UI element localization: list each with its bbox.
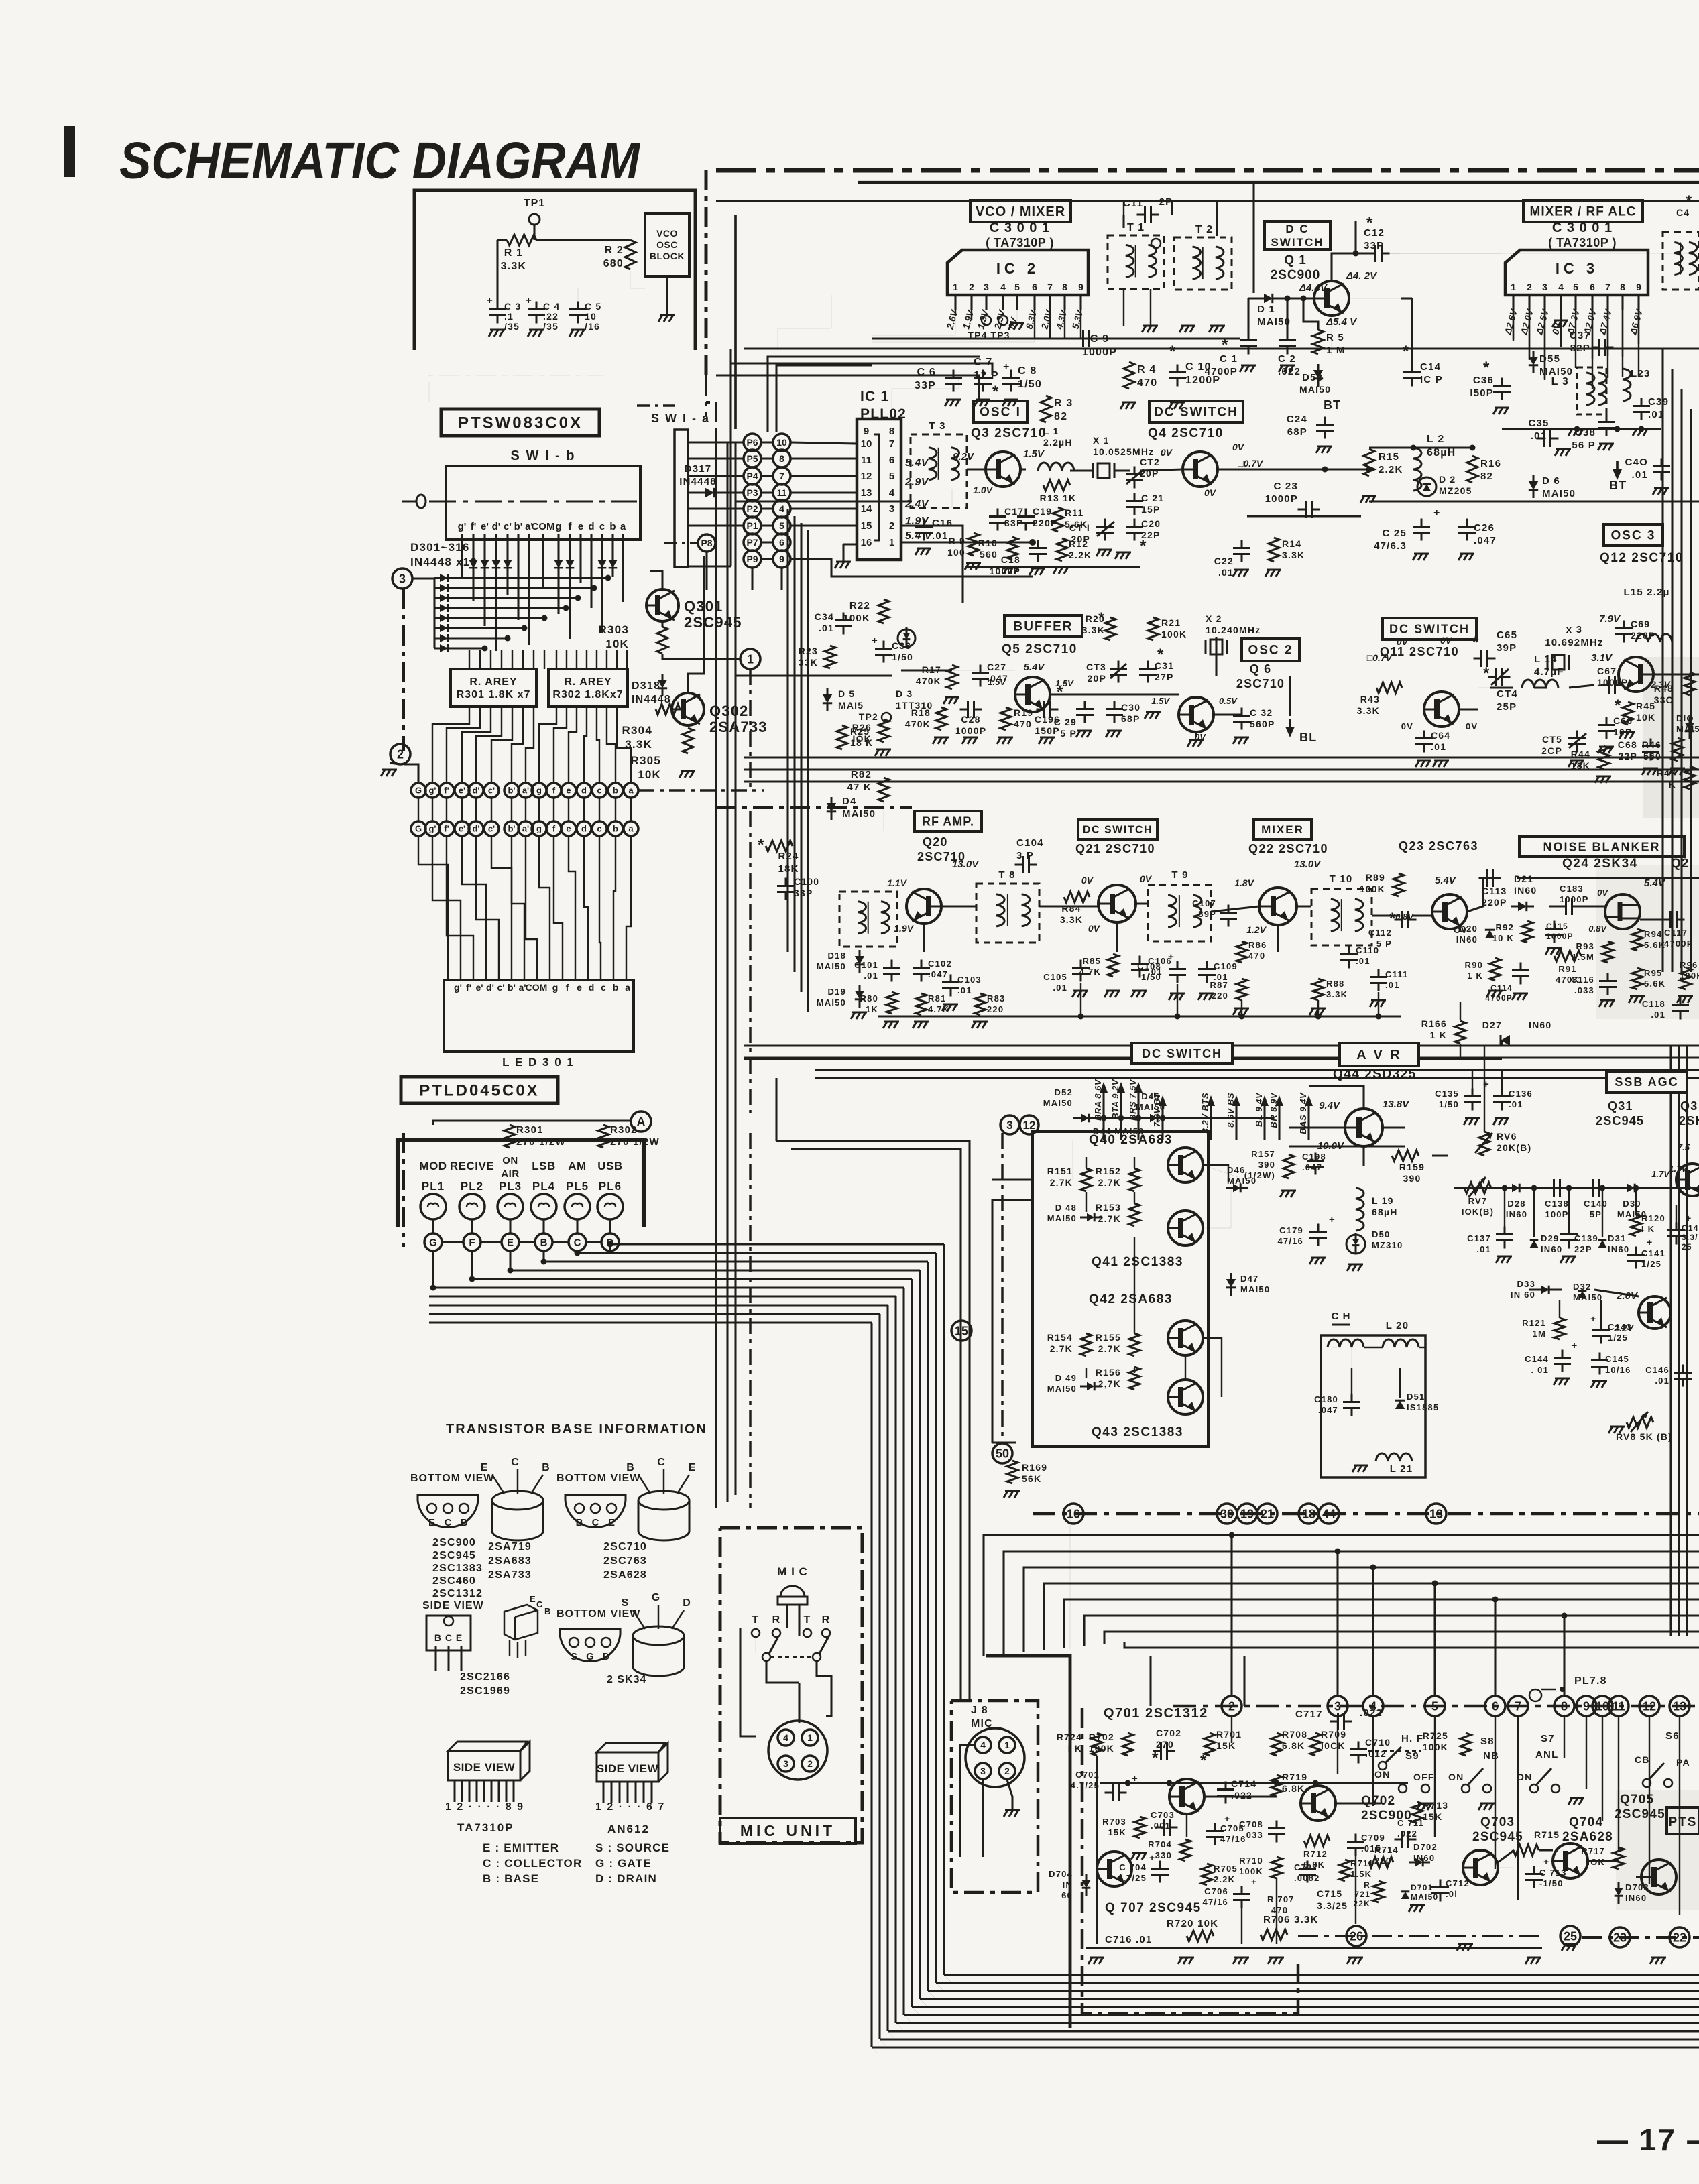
wire nb to avr vertical (1460, 1002, 1461, 1020)
svg-text:C 711: C 711 (1397, 1818, 1424, 1828)
svg-text:D55: D55 (1539, 353, 1560, 365)
svg-text:IN 60: IN 60 (1511, 1290, 1535, 1300)
resistor R711 (1340, 1860, 1350, 1881)
svg-text:C: C (536, 1599, 544, 1610)
resistor R708 (1271, 1733, 1282, 1756)
svg-text:C 23: C 23 (1274, 481, 1299, 492)
svg-text:220P: 220P (1482, 897, 1507, 908)
ground S7 (1568, 1798, 1584, 1805)
svg-text:2SC900: 2SC900 (1271, 268, 1321, 282)
svg-text:C715: C715 (1317, 1888, 1342, 1899)
resistor R89 (1393, 873, 1404, 896)
resistor R710 (1271, 1857, 1282, 1878)
OSC3 label box (1604, 524, 1663, 546)
svg-text:1 M: 1 M (1326, 345, 1346, 356)
resistor R715 (1513, 1845, 1539, 1856)
NOISE BLANKER label box (1519, 837, 1684, 857)
capacitor C711 (1395, 1831, 1417, 1848)
svg-text:2.7K: 2.7K (1098, 1343, 1121, 1354)
svg-text:Q701 2SC1312: Q701 2SC1312 (1104, 1706, 1208, 1721)
svg-text:R154: R154 (1047, 1332, 1073, 1343)
svg-text:R 5: R 5 (1326, 332, 1344, 343)
svg-text:S W I - b: S W I - b (511, 448, 576, 463)
resistor R121 (1554, 1318, 1565, 1339)
capacitor C703 (1156, 1819, 1178, 1836)
svg-text:47 K: 47 K (847, 782, 872, 793)
transistor Q702 (1301, 1786, 1336, 1821)
resistor R83 (975, 993, 986, 1015)
svg-text:1/25: 1/25 (1608, 1333, 1628, 1343)
SW1-b shaft symbol (416, 495, 426, 508)
wire P8 down (705, 552, 707, 590)
wire top band ic2 pin rails (1034, 310, 1035, 339)
svg-text:BRA 8.6V: BRA 8.6V (1093, 1079, 1103, 1121)
svg-text:+: + (1433, 507, 1441, 519)
svg-text:.01: .01 (1385, 980, 1400, 990)
svg-text:0V: 0V (1397, 636, 1409, 647)
capacitor C24 (1316, 417, 1334, 439)
package small cube (504, 1605, 538, 1640)
switch SW1-a bar (675, 430, 688, 567)
svg-text:MAI50: MAI50 (1257, 316, 1291, 328)
transistor Q301 (646, 589, 679, 621)
svg-text:*: * (1615, 696, 1622, 715)
svg-text:PL5: PL5 (566, 1180, 589, 1193)
resistor R44 (1598, 746, 1609, 769)
svg-text:2: 2 (889, 520, 894, 532)
svg-text:7.9V: 7.9V (1599, 613, 1621, 625)
capacitor C3 (489, 302, 506, 324)
svg-text:9: 9 (864, 426, 869, 437)
svg-text:220: 220 (1212, 991, 1228, 1001)
grounds under R4 C10 (1120, 402, 1136, 409)
svg-text:82P: 82P (1570, 343, 1590, 354)
svg-text:A: A (637, 1115, 646, 1128)
svg-text:MIXER / RF ALC: MIXER / RF ALC (1530, 205, 1637, 219)
svg-text:C116: C116 (1571, 975, 1594, 985)
svg-text:R156: R156 (1096, 1367, 1121, 1378)
diode D701 (1401, 1892, 1410, 1899)
resistor R157 (1283, 1154, 1294, 1178)
grounds ssb agc (1496, 1256, 1512, 1263)
svg-text:Q40 2SA683: Q40 2SA683 (1089, 1133, 1173, 1147)
svg-text:8: 8 (1062, 282, 1067, 292)
diode D55 (1529, 357, 1538, 365)
svg-text:OSC 3: OSC 3 (1610, 529, 1655, 543)
R.AREY box 2 (548, 669, 628, 707)
svg-text:7: 7 (889, 438, 894, 450)
svg-text:b': b' (514, 521, 523, 532)
svg-text:5: 5 (889, 471, 894, 482)
svg-text:D 2: D 2 (1439, 474, 1456, 485)
wire buffer path (901, 670, 1015, 671)
svg-text:C198: C198 (1302, 1152, 1326, 1162)
svg-text:DC SWITCH: DC SWITCH (1083, 825, 1153, 836)
svg-text:1: 1 (747, 652, 754, 666)
svg-text:R302: R302 (610, 1124, 638, 1136)
svg-text:D28: D28 (1507, 1199, 1525, 1209)
resistor R82 (878, 778, 889, 802)
svg-text:COM: COM (526, 982, 548, 993)
svg-text:2SA719: 2SA719 (488, 1541, 532, 1553)
svg-text:MIC UNIT: MIC UNIT (740, 1822, 835, 1839)
resistor R47 (1684, 766, 1695, 789)
svg-text:E: E (530, 1594, 536, 1604)
svg-text:g': g' (428, 824, 436, 834)
svg-text:SIDE VIEW: SIDE VIEW (453, 1761, 516, 1774)
capacitor C704 (1151, 1861, 1169, 1883)
trimmer CT1 (1096, 519, 1114, 541)
resistor R90 (1490, 958, 1501, 981)
svg-text:( TA7310P ): ( TA7310P ) (1548, 236, 1617, 249)
capacitor C6 (945, 370, 962, 392)
left border vertical dash-dot (705, 170, 708, 375)
svg-text:10/16: 10/16 (1605, 1365, 1631, 1375)
svg-text:MAI50: MAI50 (1573, 1292, 1602, 1302)
svg-text:5.4V: 5.4V (1435, 875, 1457, 886)
svg-text:a: a (628, 824, 634, 834)
svg-text:13.0V: 13.0V (952, 859, 980, 870)
svg-text:R 707: R 707 (1267, 1894, 1295, 1904)
IC3 pin stubs (1512, 295, 1514, 310)
dash-dot border to node 50 (1001, 1133, 1004, 1441)
svg-text:PL2: PL2 (461, 1180, 483, 1193)
svg-text:Q12 2SC710: Q12 2SC710 (1600, 551, 1684, 565)
svg-text:R82: R82 (851, 769, 872, 780)
wire IC1 pin2 right (901, 526, 963, 603)
resistor R93 (1602, 941, 1613, 963)
transistor Q34 2.0V (1639, 1296, 1671, 1329)
svg-text:E: E (481, 1462, 488, 1473)
svg-text:ANL: ANL (1535, 1749, 1558, 1760)
svg-text:b': b' (508, 982, 516, 993)
svg-text:P5: P5 (746, 453, 758, 464)
svg-text:R87: R87 (1210, 980, 1228, 990)
SW1-b wiper dash-dot line (429, 501, 637, 503)
svg-text:R18: R18 (911, 707, 931, 718)
svg-text:100K: 100K (843, 613, 870, 624)
trimmer CT2 (1126, 467, 1143, 489)
svg-text:1000P: 1000P (1597, 677, 1628, 688)
diode D318 (658, 680, 667, 688)
svg-text:2SA628: 2SA628 (603, 1569, 647, 1581)
wires SW1a to P circles (688, 441, 743, 443)
svg-text:5: 5 (1573, 282, 1578, 292)
resistor R19 (1000, 707, 1011, 730)
svg-text:100K: 100K (1239, 1866, 1263, 1876)
OSC1 label box (974, 401, 1027, 422)
resistor R96 (1680, 968, 1691, 989)
svg-text:680: 680 (603, 258, 624, 269)
dashes between connector circles (443, 1241, 463, 1243)
capacitor C111 (1370, 969, 1387, 991)
svg-text:R709: R709 (1321, 1729, 1346, 1740)
fet Q24 (1605, 894, 1640, 929)
svg-text:1/50: 1/50 (1018, 379, 1042, 390)
svg-text:B: B (540, 1237, 548, 1248)
resistor R725 (1460, 1733, 1471, 1756)
svg-text:470K: 470K (916, 676, 941, 686)
svg-text:1.5V: 1.5V (1023, 448, 1045, 460)
left dash-dot border upper (402, 589, 405, 751)
svg-text:C179: C179 (1279, 1225, 1303, 1235)
svg-text:OSC: OSC (656, 239, 678, 250)
resistor R717 (1613, 1847, 1624, 1869)
svg-text:R710: R710 (1239, 1856, 1263, 1866)
dash-dot border above RF AMP (716, 806, 912, 809)
svg-text:68µH: 68µH (1372, 1207, 1398, 1217)
svg-text:12: 12 (861, 471, 872, 482)
svg-text:*: * (1366, 214, 1374, 232)
svg-text:R151: R151 (1047, 1166, 1073, 1176)
svg-text:OFF: OFF (1413, 1772, 1435, 1782)
transistor Q3 (986, 452, 1020, 487)
svg-text:D318: D318 (632, 680, 660, 692)
svg-text:Q41 2SC1383: Q41 2SC1383 (1092, 1255, 1183, 1269)
svg-text:ON: ON (1517, 1772, 1532, 1782)
svg-text:J 8: J 8 (971, 1705, 988, 1716)
svg-text:2SC945: 2SC945 (1615, 1807, 1665, 1821)
wire Q40 block to bus (992, 1200, 1033, 1443)
svg-text:8.6V BS: 8.6V BS (1226, 1093, 1236, 1128)
wire Q1 emitter down (1331, 316, 1332, 355)
capacitor C142 (1667, 1223, 1685, 1245)
svg-text:C183: C183 (1560, 884, 1584, 894)
svg-text:R92: R92 (1496, 922, 1514, 932)
ground under R305 (679, 771, 695, 778)
svg-text:+: + (1168, 951, 1175, 963)
wire bottom block verticals 2 (1096, 1756, 1098, 1944)
svg-text:2SC945: 2SC945 (1596, 1114, 1644, 1128)
svg-text:20K(B): 20K(B) (1497, 1142, 1531, 1153)
diode D3 circled (898, 629, 915, 647)
svg-text:.001: .001 (1151, 1821, 1171, 1831)
mid border dash-dot around switch section (429, 375, 603, 402)
T4 can right edge (1663, 232, 1699, 290)
resistor R713 (1412, 1802, 1423, 1823)
svg-text:10.240MHz: 10.240MHz (1206, 625, 1261, 635)
capacitor C36 (1493, 378, 1511, 400)
coil L1 (1038, 463, 1074, 471)
svg-text:B: B (461, 1517, 468, 1528)
svg-text:Q31: Q31 (1608, 1099, 1633, 1113)
svg-text:b': b' (508, 786, 515, 796)
capacitor C713 (1525, 1866, 1543, 1888)
svg-text:2SA683: 2SA683 (488, 1555, 532, 1567)
svg-text:S : SOURCE: S : SOURCE (595, 1841, 670, 1854)
test points TP4 TP3 (982, 316, 991, 325)
svg-text:D19: D19 (828, 987, 846, 997)
svg-text:10: 10 (861, 438, 872, 450)
svg-text:R45: R45 (1636, 701, 1655, 711)
resistor R724 (1092, 1733, 1102, 1756)
T1 terminal circle (1151, 239, 1161, 248)
resistor R155 (1129, 1333, 1140, 1356)
capacitor C33 (875, 641, 892, 663)
svg-text:18 K: 18 K (850, 737, 873, 748)
svg-text:b: b (613, 824, 618, 834)
connector circle drop wires (609, 1244, 611, 1251)
svg-text:1: 1 (953, 282, 958, 292)
svg-text:1: 1 (807, 1732, 813, 1743)
svg-text:.01: .01 (957, 985, 972, 995)
svg-text:D317: D317 (685, 463, 712, 475)
svg-text:T 3: T 3 (929, 420, 945, 432)
diode matrix rows (434, 577, 608, 579)
capacitor C64 (1415, 731, 1433, 753)
svg-text:CT5: CT5 (1542, 734, 1562, 745)
svg-text:R719: R719 (1282, 1772, 1307, 1782)
svg-text:+: + (872, 635, 878, 646)
svg-text:0V: 0V (1597, 888, 1608, 898)
capacitor C69 (1615, 621, 1633, 643)
svg-text:R121: R121 (1522, 1318, 1546, 1328)
capacitor C26 (1458, 519, 1476, 541)
capacitor C20 (1126, 519, 1143, 541)
svg-text:1.8V: 1.8V (1234, 877, 1254, 888)
svg-text:BLOCK: BLOCK (650, 251, 685, 261)
svg-text:*: * (1483, 664, 1490, 682)
svg-text:.022: .022 (1360, 1707, 1383, 1719)
svg-text:D: D (603, 1651, 610, 1662)
svg-text:R301: R301 (516, 1124, 544, 1136)
svg-text:10.0525MHz: 10.0525MHz (1093, 446, 1154, 457)
risers bottom block to staircase (1230, 1535, 1232, 1696)
svg-text:10.692MHz: 10.692MHz (1545, 637, 1604, 648)
svg-text:I K: I K (1068, 1743, 1083, 1754)
J8 MIC dash-dot border (951, 1701, 1038, 1892)
svg-text:R43: R43 (1360, 694, 1380, 705)
svg-text:6.8K: 6.8K (1282, 1783, 1305, 1794)
svg-text:R: R (822, 1614, 831, 1626)
resistor R1 (507, 235, 536, 245)
svg-text:5.4V: 5.4V (905, 457, 929, 469)
svg-text:C136: C136 (1509, 1089, 1533, 1099)
right edge vertical bundle (1661, 349, 1663, 972)
grounds q11 row (1415, 760, 1431, 767)
transistor Q33 partial (1676, 1164, 1699, 1196)
svg-text:2SC1383: 2SC1383 (432, 1563, 483, 1574)
coil L2 (1413, 448, 1421, 491)
wire Q1 collector up (1332, 253, 1372, 281)
svg-text:S W I - a: S W I - a (651, 412, 710, 425)
wire lamp supply (433, 1121, 630, 1125)
svg-text:PL7.8: PL7.8 (1574, 1675, 1607, 1687)
nested corner bus loops (610, 1243, 944, 1245)
ground L21 (1352, 1465, 1368, 1472)
svg-text:Q 6: Q 6 (1250, 662, 1272, 676)
svg-text:33P: 33P (915, 380, 936, 391)
pot RV6 (1479, 1132, 1490, 1156)
pot RV7 (1464, 1182, 1491, 1193)
transistor Q22 (1259, 888, 1297, 925)
svg-text:2 SK34: 2 SK34 (607, 1674, 646, 1685)
svg-text:BOTTOM VIEW: BOTTOM VIEW (556, 1608, 640, 1620)
R.AREY box 1 (451, 669, 536, 707)
svg-text:+: + (1329, 1214, 1336, 1225)
capacitor C25 (1413, 519, 1430, 541)
diode D29 (1530, 1240, 1539, 1248)
transistor Q705 (1641, 1860, 1676, 1894)
transistor Q12 (1619, 657, 1653, 692)
svg-text:DC SWITCH: DC SWITCH (1142, 1047, 1222, 1060)
wire node3 to matrix (412, 577, 434, 579)
svg-text:e': e' (475, 982, 483, 993)
svg-text:3.3K: 3.3K (1357, 705, 1380, 716)
svg-text:D: D (683, 1597, 691, 1609)
svg-text:MAI50: MAI50 (817, 997, 846, 1008)
svg-text:R89: R89 (1366, 872, 1385, 883)
diode D49 (1087, 1382, 1094, 1391)
resistor R714 (1369, 1857, 1393, 1868)
resistor R709 (1310, 1733, 1321, 1756)
node 16 circle (1063, 1504, 1083, 1524)
IC2 pin stubs (954, 295, 956, 310)
resistor R169 (1007, 1461, 1018, 1483)
svg-text:C108: C108 (1137, 961, 1161, 971)
svg-text:S7: S7 (1541, 1733, 1555, 1744)
svg-text:2SC710: 2SC710 (1236, 677, 1285, 690)
svg-text:15K: 15K (1108, 1827, 1126, 1837)
svg-text:VCO: VCO (656, 228, 678, 239)
capacitor C183 (1558, 898, 1580, 915)
svg-text:2: 2 (969, 282, 974, 292)
svg-text:IN60: IN60 (1625, 1893, 1647, 1903)
capacitor C28 (960, 701, 982, 718)
left dash-dot border lower (402, 1133, 405, 1247)
svg-text:390: 390 (1258, 1160, 1275, 1170)
transistor Q41 (1168, 1211, 1203, 1246)
svg-text:16: 16 (861, 537, 872, 548)
diode D30 (1627, 1184, 1635, 1193)
svg-text:C703: C703 (1151, 1810, 1175, 1820)
coil L3 canned (1577, 367, 1606, 414)
svg-text:4: 4 (980, 1740, 986, 1750)
svg-text:MAI50: MAI50 (1299, 384, 1331, 395)
svg-text:C 29: C 29 (1054, 717, 1077, 727)
svg-text:IC 2: IC 2 (996, 260, 1039, 277)
capacitor C710 (1350, 1742, 1367, 1764)
wire mixer row signal path (941, 905, 976, 907)
svg-text:R15: R15 (1379, 451, 1399, 463)
svg-text:D50: D50 (1372, 1229, 1390, 1239)
RF AMP label box (915, 811, 982, 831)
svg-text:Q42 2SA683: Q42 2SA683 (1089, 1292, 1173, 1307)
capacitor C66 (1598, 717, 1615, 739)
J8 wires (982, 1780, 984, 1857)
resistor R156 (1129, 1367, 1140, 1390)
svg-text:S9: S9 (1405, 1750, 1419, 1762)
capacitor C38 (1598, 414, 1615, 436)
svg-text:C37: C37 (1570, 330, 1590, 341)
capacitor C27 (972, 665, 989, 687)
svg-text:(1/2W): (1/2W) (1244, 1170, 1275, 1180)
svg-text:1.5M: 1.5M (1572, 952, 1594, 962)
svg-text:2SA733: 2SA733 (488, 1569, 532, 1581)
svg-text:1/50: 1/50 (892, 652, 913, 662)
svg-text:R13 1K: R13 1K (1040, 493, 1077, 503)
svg-text:2: 2 (1004, 1766, 1010, 1776)
capacitor C145 (1591, 1353, 1608, 1375)
capacitor C100 (777, 878, 795, 900)
svg-text:G: G (429, 1237, 437, 1248)
svg-text:68P: 68P (1287, 426, 1307, 438)
svg-text:7: 7 (1605, 282, 1610, 292)
microphone symbol (780, 1586, 805, 1597)
svg-text:1.7V: 1.7V (1651, 1169, 1670, 1179)
svg-text:470: 470 (1014, 719, 1032, 729)
svg-text:MAI50: MAI50 (1047, 1384, 1077, 1394)
